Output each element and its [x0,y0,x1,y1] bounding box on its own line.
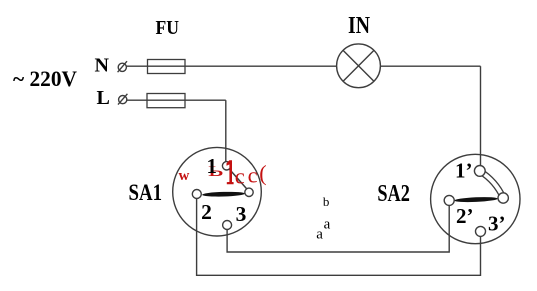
svg-text:a: a [324,217,331,233]
svg-text:1’: 1’ [455,159,473,183]
svg-text:SA1: SA1 [129,180,163,206]
wire L horizontal [127,99,226,101]
svg-text:w: w [179,168,190,184]
lamp IN [337,44,381,88]
svg-text:2: 2 [201,200,212,224]
wire lamp to right corner [380,65,480,67]
terminal L [118,94,127,105]
SA2 contact pin 1' (top) [474,166,485,177]
wire N horizontal to lamp [127,65,337,67]
SA2 contact right [498,193,508,203]
SA2 curved connector band pin1' to right contact [480,171,504,198]
switch SA2 body circle [431,154,520,243]
SA1 contact right [245,188,253,196]
svg-text:3: 3 [236,202,247,226]
svg-text:SA2: SA2 [377,181,410,207]
terminal N [118,61,127,72]
switch SA1 body circle [173,147,262,236]
SA2 contact left [444,195,454,205]
svg-text:(: ( [259,161,266,186]
svg-text:N: N [95,54,110,76]
svg-text:a: a [316,227,323,243]
SA2 wiper bar [454,196,498,202]
svg-text:b: b [323,194,330,209]
SA1 contact pin 1 (top) [222,162,230,170]
svg-text:c: c [248,162,258,187]
svg-text:1: 1 [206,154,217,178]
SA2 contact bottom [476,226,486,236]
wire right vertical to SA2 pin 1' [480,66,482,170]
svg-text:~ 220V: ~ 220V [13,66,77,91]
red watermark fragment 1 [227,160,234,184]
svg-text:c: c [235,163,245,188]
SA1 connector line pin1 to right contact [229,169,248,190]
wire L vertical to SA1 pin 1 [225,100,227,166]
svg-text:FU: FU [156,17,180,39]
SA1 contact left [192,190,201,199]
svg-text:IN: IN [348,12,370,39]
fuse FU upper (N) [148,60,186,74]
wire SA1 pin2(left) down to bottom rail and to SA2 pin3'(bottom) [197,194,481,275]
SA1 contact bottom [223,221,232,230]
svg-text:L: L [97,87,110,109]
svg-text:3’: 3’ [488,211,506,235]
svg-text:2’: 2’ [456,204,474,228]
SA1 wiper bar [202,191,245,197]
fuse FU lower (L) [147,94,185,108]
wire SA1 pin3(bottom) to middle rail to SA2 pin2'(left) [227,200,449,252]
